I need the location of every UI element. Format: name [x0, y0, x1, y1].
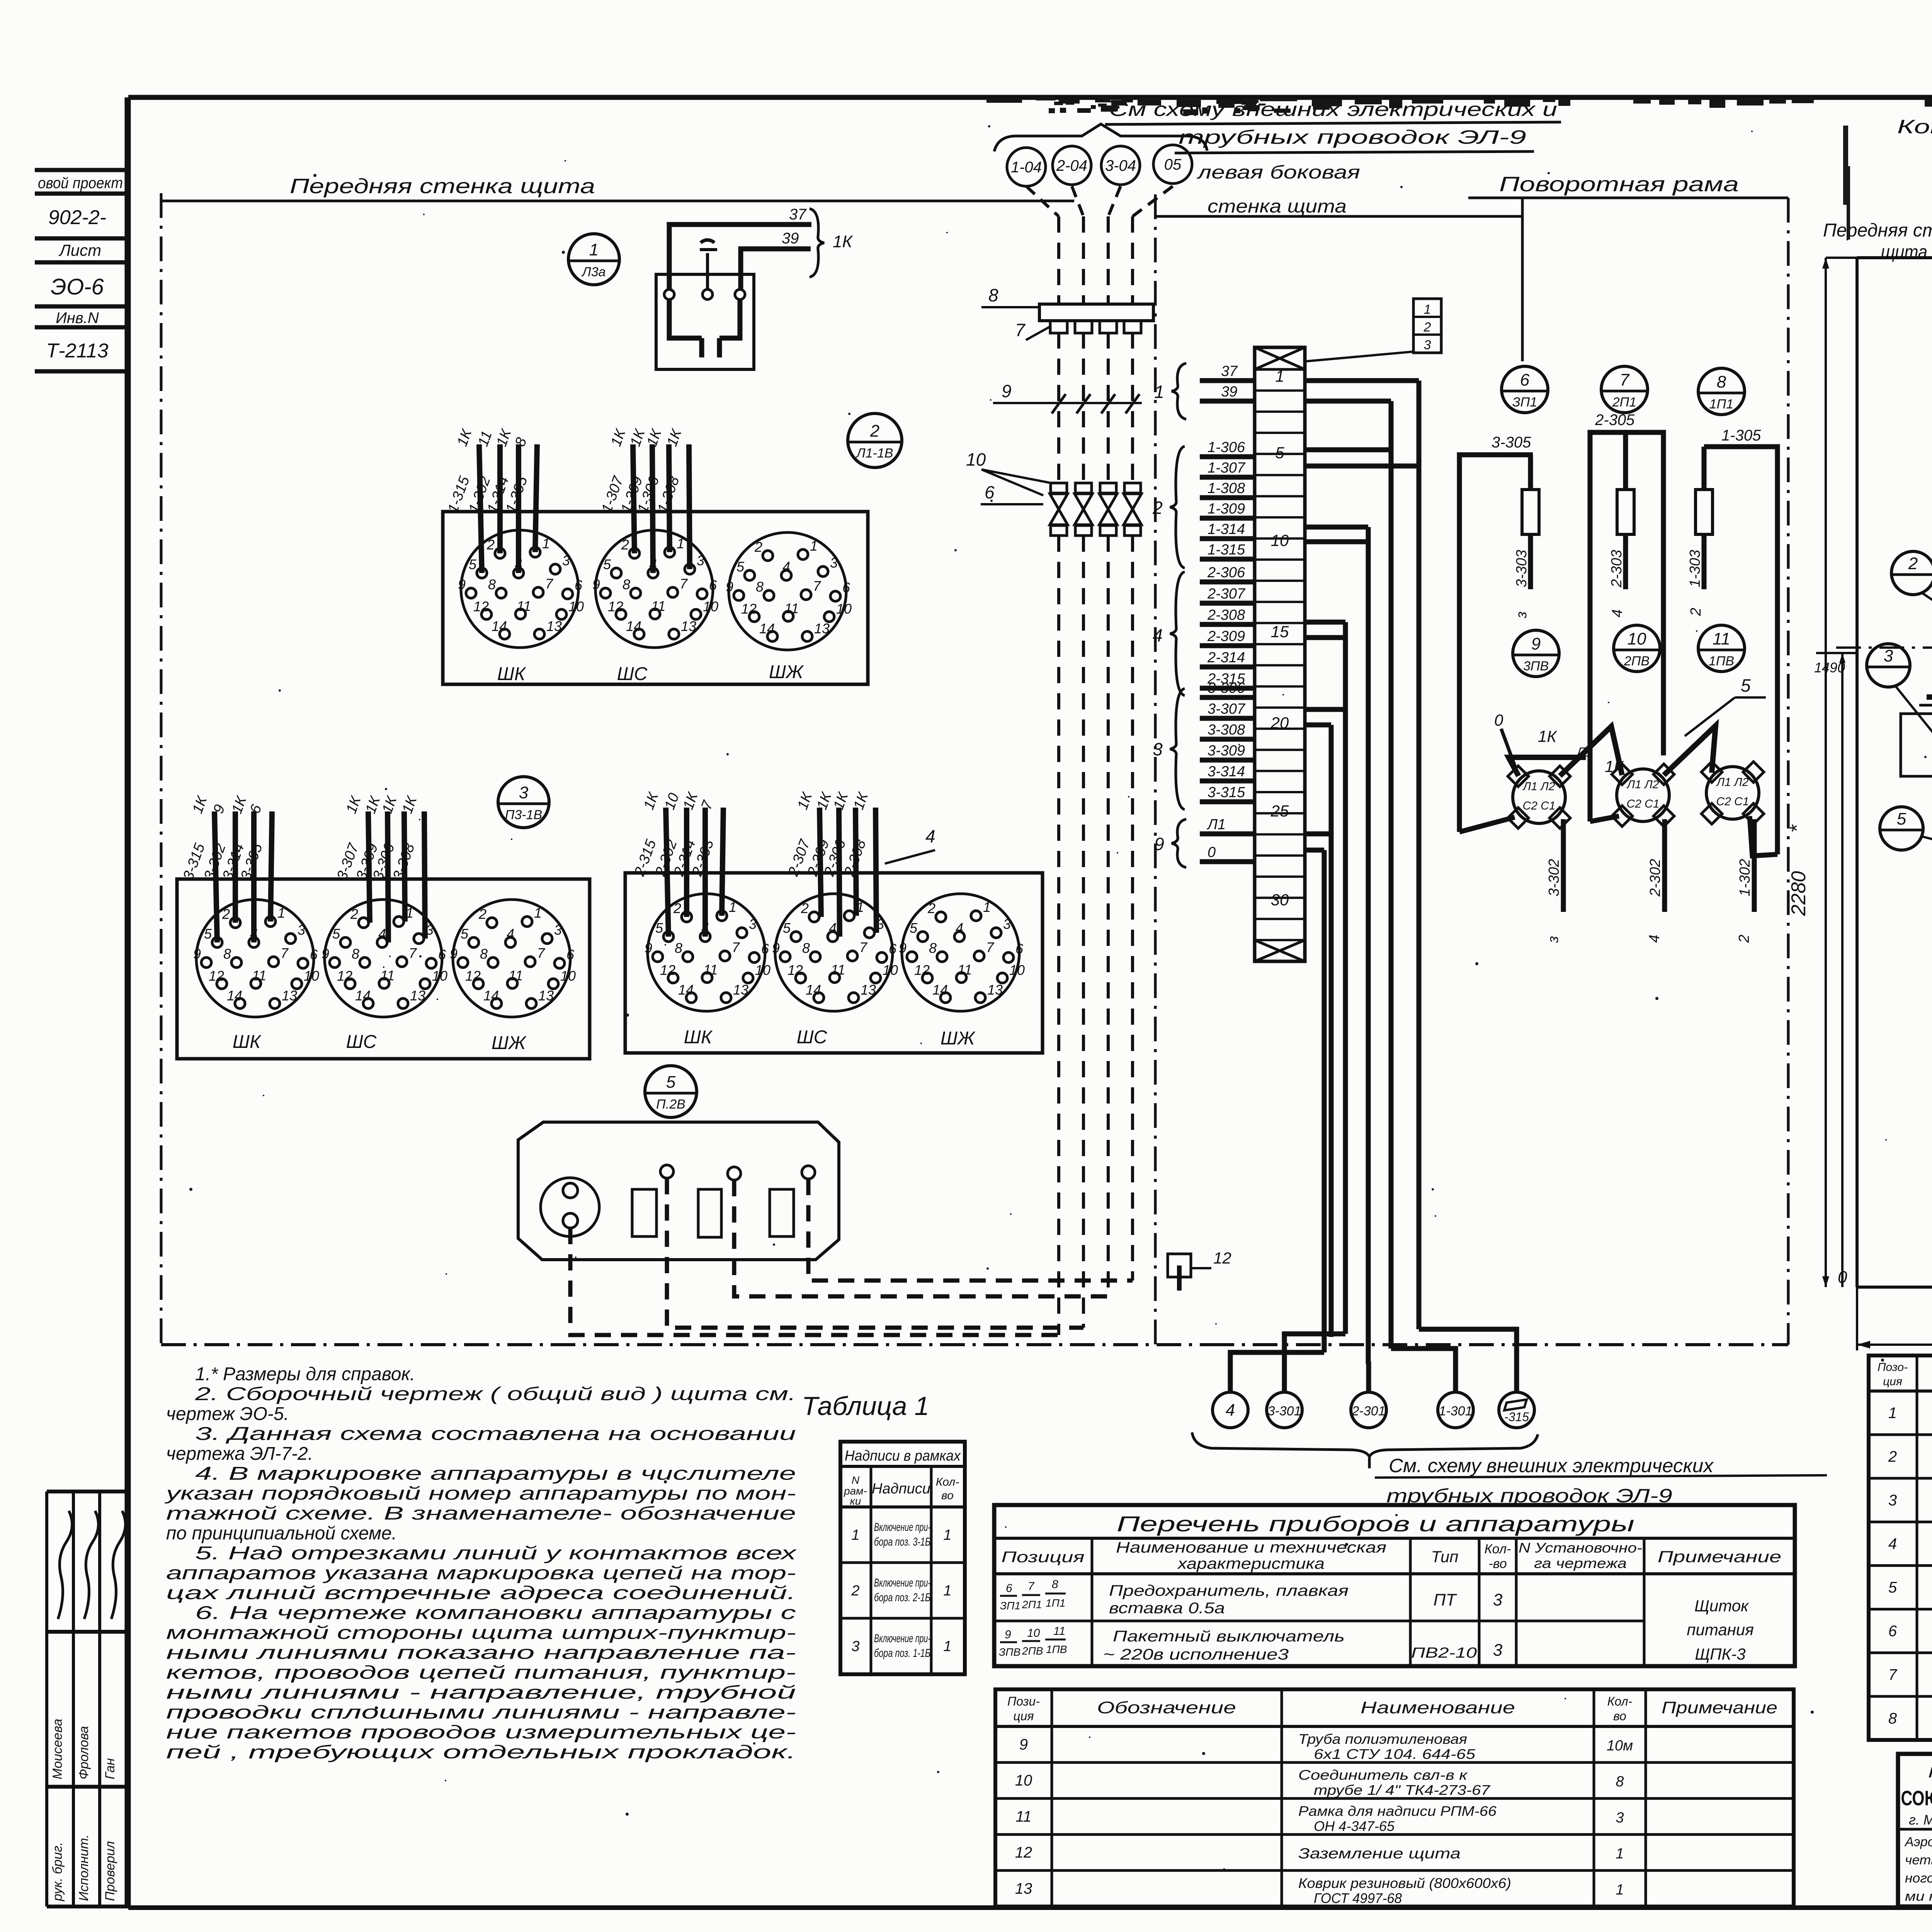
svg-text:9: 9 — [458, 577, 466, 592]
svg-text:1: 1 — [1888, 1405, 1897, 1422]
svg-text:12: 12 — [465, 968, 481, 984]
svg-text:Включение при-: Включение при- — [874, 1521, 930, 1534]
svg-text:ными линиями - направление,: ными линиями - направление, трубной — [166, 1682, 796, 1703]
svg-text:Компоновка аппаратуры с: Компоновка аппаратуры с монтажной — [1897, 116, 1932, 138]
svg-text:13: 13 — [546, 618, 562, 634]
svg-text:Перечень приборов и аппарат: Перечень приборов и аппаратуры — [1117, 1512, 1634, 1536]
svg-text:5: 5 — [1897, 810, 1906, 828]
svg-text:12: 12 — [608, 599, 623, 614]
svg-text:12: 12 — [787, 962, 803, 978]
svg-text:12: 12 — [660, 962, 675, 978]
svg-text:10: 10 — [432, 968, 447, 984]
svg-text:1-309: 1-309 — [1207, 501, 1245, 517]
svg-text:Наименование и техническая: Наименование и техническая — [1116, 1539, 1386, 1556]
svg-text:Тип: Тип — [1431, 1548, 1459, 1566]
svg-text:8: 8 — [802, 940, 810, 956]
svg-text:Кол-: Кол- — [1607, 1694, 1633, 1708]
svg-text:14: 14 — [492, 618, 507, 634]
svg-text:11: 11 — [831, 962, 845, 978]
svg-text:8: 8 — [488, 577, 496, 592]
svg-text:Кол-: Кол- — [1485, 1542, 1511, 1556]
svg-text:Пози-: Пози- — [1007, 1694, 1040, 1708]
svg-text:2: 2 — [927, 900, 935, 916]
svg-text:4: 4 — [378, 926, 386, 942]
svg-text:Заземление щита: Заземление щита — [1298, 1846, 1461, 1862]
svg-text:2-303: 2-303 — [1609, 550, 1625, 588]
svg-text:10: 10 — [1015, 1772, 1032, 1789]
svg-text:9: 9 — [1002, 381, 1012, 401]
svg-text:Л1 Л2: Л1 Л2 — [1522, 780, 1555, 793]
svg-text:10: 10 — [1628, 629, 1646, 648]
svg-text:2: 2 — [486, 537, 495, 553]
svg-text:вставка 0.5а: вставка 0.5а — [1109, 1600, 1225, 1617]
svg-text:Ган: Ган — [103, 1758, 117, 1779]
svg-text:6: 6 — [575, 577, 583, 593]
svg-text:1-04: 1-04 — [1011, 159, 1042, 176]
svg-text:Аэротенки- смесители: Аэротенки- смесители — [1904, 1835, 1932, 1849]
svg-text:2: 2 — [222, 906, 230, 922]
svg-text:ШК: ШК — [497, 664, 526, 684]
svg-text:11: 11 — [703, 962, 718, 978]
svg-text:ного железобетона с размера-: ного железобетона с размера- — [1905, 1871, 1932, 1886]
svg-text:14: 14 — [227, 988, 242, 1003]
svg-text:11: 11 — [517, 598, 531, 614]
svg-text:монтажной стороны щита штр: монтажной стороны щита штрих-пунктир- — [166, 1623, 796, 1643]
svg-text:3: 3 — [1424, 338, 1431, 352]
svg-text:Примечание: Примечание — [1662, 1698, 1777, 1717]
svg-text:10: 10 — [1009, 962, 1025, 978]
svg-text:3: 3 — [554, 922, 562, 938]
svg-text:5: 5 — [655, 920, 663, 936]
svg-text:бора поз. 3-1Б: бора поз. 3-1Б — [874, 1536, 930, 1548]
svg-text:9: 9 — [193, 946, 201, 962]
svg-text:9: 9 — [645, 940, 652, 956]
svg-text:стенка щита: стенка щита — [1207, 196, 1347, 217]
svg-text:трубных проводок ЭЛ-9: трубных проводок ЭЛ-9 — [1179, 126, 1526, 148]
svg-text:Л1 Л2: Л1 Л2 — [1716, 776, 1749, 789]
svg-text:Рамка для надписи РПМ-66: Рамка для надписи РПМ-66 — [1298, 1803, 1497, 1819]
svg-text:1: 1 — [1616, 1846, 1624, 1862]
svg-text:4: 4 — [507, 926, 514, 942]
svg-text:7: 7 — [409, 945, 417, 961]
svg-text:3: 3 — [1616, 1810, 1624, 1826]
svg-text:Инв.N: Инв.N — [56, 310, 99, 327]
svg-text:8: 8 — [480, 946, 488, 962]
svg-text:6: 6 — [310, 947, 318, 963]
svg-text:7: 7 — [1888, 1666, 1898, 1683]
svg-text:10: 10 — [966, 449, 986, 469]
svg-text:5: 5 — [603, 556, 611, 572]
svg-text:по принципиальной схеме.: по принципиальной схеме. — [166, 1523, 397, 1544]
svg-text:5: 5 — [461, 926, 469, 942]
svg-text:ЭО-6: ЭО-6 — [51, 274, 104, 299]
svg-text:8: 8 — [675, 940, 682, 956]
svg-text:9: 9 — [772, 940, 780, 956]
svg-text:га чертежа: га чертежа — [1534, 1555, 1627, 1571]
svg-text:2: 2 — [1908, 554, 1918, 573]
svg-text:3ПВ: 3ПВ — [1523, 659, 1549, 673]
svg-text:2: 2 — [1888, 1448, 1897, 1465]
svg-text:1К: 1К — [1538, 727, 1557, 745]
svg-text:ЗП1: ЗП1 — [1512, 395, 1537, 410]
svg-text:питания: питания — [1687, 1621, 1753, 1639]
svg-text:9: 9 — [726, 579, 733, 595]
svg-text:ция: ция — [1883, 1375, 1902, 1388]
svg-text:П3-1В: П3-1В — [505, 808, 542, 822]
svg-text:6: 6 — [1015, 941, 1024, 957]
svg-text:ШК: ШК — [233, 1032, 262, 1052]
svg-text:1.* Размеры для справок.: 1.* Размеры для справок. — [195, 1364, 415, 1384]
svg-text:ЩПК-3: ЩПК-3 — [1695, 1645, 1745, 1663]
svg-text:2: 2 — [870, 422, 879, 440]
svg-text:5: 5 — [910, 920, 918, 936]
svg-text:3: 3 — [1888, 1492, 1897, 1509]
svg-text:3: 3 — [562, 553, 570, 568]
svg-text:11: 11 — [957, 962, 972, 978]
svg-text:5: 5 — [736, 559, 745, 575]
svg-text:8: 8 — [1888, 1710, 1897, 1727]
svg-text:13: 13 — [1015, 1880, 1032, 1897]
svg-text:7: 7 — [1015, 320, 1026, 340]
svg-text:Щиток: Щиток — [1694, 1597, 1749, 1615]
svg-text:з: з — [1514, 611, 1530, 619]
svg-text:5: 5 — [204, 926, 212, 942]
svg-text:13: 13 — [681, 618, 696, 634]
svg-text:5: 5 — [783, 920, 791, 936]
svg-text:2-306: 2-306 — [1207, 565, 1245, 581]
svg-text:цах линий встречные адреса: цах линий встречные адреса соединений. — [166, 1583, 796, 1604]
svg-text:См. схему внешних электричес: См. схему внешних электрических — [1389, 1455, 1714, 1476]
svg-text:2: 2 — [1688, 608, 1704, 616]
svg-text:3. Данная схема составлена: 3. Данная схема составлена на основании — [195, 1424, 796, 1444]
svg-text:С2 С1: С2 С1 — [1626, 798, 1659, 810]
svg-text:2П1: 2П1 — [1022, 1599, 1042, 1611]
svg-text:5. Над отрезками линий у к: 5. Над отрезками линий у контактов всех — [195, 1543, 797, 1564]
svg-text:1ПВ: 1ПВ — [1709, 654, 1734, 668]
svg-text:7: 7 — [545, 576, 554, 592]
svg-text:Надписи: Надписи — [872, 1481, 930, 1497]
svg-text:4: 4 — [956, 920, 963, 936]
svg-text:7: 7 — [680, 576, 688, 592]
svg-text:11: 11 — [784, 600, 799, 616]
svg-text:12: 12 — [209, 968, 224, 984]
svg-text:20: 20 — [1270, 714, 1289, 732]
svg-text:11: 11 — [1015, 1808, 1032, 1825]
svg-text:1: 1 — [729, 899, 736, 915]
svg-text:8: 8 — [1717, 372, 1726, 391]
svg-text:6: 6 — [889, 941, 897, 957]
svg-text:12: 12 — [1015, 1844, 1032, 1861]
svg-text:11: 11 — [252, 968, 266, 983]
svg-text:12: 12 — [1213, 1249, 1231, 1267]
svg-text:8: 8 — [756, 579, 764, 595]
svg-text:3: 3 — [1493, 1641, 1503, 1660]
svg-text:9: 9 — [1019, 1736, 1028, 1753]
svg-text:Примечание: Примечание — [1658, 1548, 1781, 1566]
svg-text:рук. бриг.: рук. бриг. — [50, 1842, 65, 1901]
svg-text:четырехкоридорные из сбор-: четырехкоридорные из сбор- — [1905, 1853, 1932, 1867]
svg-text:6: 6 — [1888, 1623, 1897, 1640]
svg-text:25: 25 — [1270, 802, 1289, 820]
svg-text:Соединитель свл-в к: Соединитель свл-в к — [1298, 1767, 1468, 1783]
svg-text:10: 10 — [1027, 1627, 1040, 1639]
svg-text:1К: 1К — [1605, 757, 1624, 776]
svg-text:14: 14 — [806, 982, 821, 998]
svg-text:Кол-: Кол- — [936, 1476, 959, 1488]
svg-text:2: 2 — [478, 906, 486, 922]
svg-text:3-301: 3-301 — [1268, 1404, 1301, 1418]
svg-text:13: 13 — [733, 982, 748, 998]
svg-text:2-307: 2-307 — [1207, 586, 1246, 602]
svg-text:1ПВ: 1ПВ — [1046, 1643, 1067, 1655]
svg-text:ШЖ: ШЖ — [769, 662, 804, 682]
svg-text:Включение при-: Включение при- — [874, 1577, 930, 1589]
svg-text:чертежа ЭЛ-7-2.: чертежа ЭЛ-7-2. — [166, 1444, 313, 1464]
svg-text:39: 39 — [1221, 384, 1237, 400]
svg-text:902-2-: 902-2- — [48, 206, 106, 229]
svg-text:6х1 СТУ 104. 644-65: 6х1 СТУ 104. 644-65 — [1314, 1746, 1476, 1762]
svg-text:7: 7 — [859, 939, 868, 955]
svg-text:3: 3 — [519, 783, 529, 802]
svg-text:1: 1 — [589, 240, 599, 259]
svg-text:1П1: 1П1 — [1046, 1597, 1065, 1609]
svg-text:11: 11 — [380, 968, 395, 983]
svg-text:4: 4 — [1646, 935, 1663, 943]
svg-text:1-307: 1-307 — [1207, 460, 1246, 476]
svg-text:6: 6 — [842, 580, 850, 595]
svg-text:8: 8 — [1616, 1774, 1624, 1790]
svg-text:4. В маркировке аппаратуры: 4. В маркировке аппаратуры в числителе — [195, 1464, 796, 1484]
svg-text:10: 10 — [703, 599, 718, 614]
svg-text:10м: 10м — [1607, 1738, 1633, 1754]
svg-text:Позиция: Позиция — [1002, 1549, 1085, 1566]
svg-text:7: 7 — [1620, 371, 1630, 389]
svg-text:бора поз. 2-1Б: бора поз. 2-1Б — [874, 1591, 930, 1604]
svg-text:2: 2 — [801, 900, 809, 916]
svg-text:12: 12 — [914, 962, 930, 978]
svg-text:1: 1 — [1424, 302, 1431, 317]
svg-text:1: 1 — [943, 1527, 951, 1543]
svg-text:з: з — [1545, 936, 1561, 943]
svg-text:2-305: 2-305 — [1595, 412, 1635, 429]
svg-text:ние пакетов проводов изм: ние пакетов проводов измерительных це- — [166, 1722, 796, 1743]
svg-text:37: 37 — [1221, 363, 1238, 379]
svg-text:2-04: 2-04 — [1056, 157, 1087, 174]
svg-text:ОН 4-347-65: ОН 4-347-65 — [1314, 1818, 1395, 1834]
svg-text:Л1: Л1 — [1576, 745, 1593, 760]
svg-text:3-04: 3-04 — [1105, 157, 1136, 174]
svg-text:0: 0 — [1494, 711, 1503, 729]
svg-text:1: 1 — [534, 905, 542, 921]
svg-text:12: 12 — [337, 968, 352, 984]
svg-text:N: N — [852, 1474, 860, 1486]
svg-text:ция: ция — [1013, 1709, 1034, 1723]
svg-text:11: 11 — [651, 598, 665, 614]
svg-text:6: 6 — [985, 482, 995, 502]
svg-text:13: 13 — [410, 988, 425, 1003]
svg-text:10: 10 — [755, 962, 770, 978]
svg-text:N Установочно-: N Установочно- — [1519, 1540, 1642, 1556]
svg-text:С2 С1: С2 С1 — [1522, 799, 1555, 812]
svg-text:2: 2 — [754, 539, 762, 555]
svg-text:8: 8 — [1052, 1578, 1058, 1591]
svg-text:Предохранитель, плавкая: Предохранитель, плавкая — [1109, 1582, 1349, 1599]
svg-text:2ПВ: 2ПВ — [1624, 654, 1650, 668]
svg-text:3-308: 3-308 — [1207, 722, 1245, 738]
svg-text:9: 9 — [450, 946, 457, 962]
svg-text:Госстрой СССР: Госстрой СССР — [1928, 1765, 1932, 1781]
svg-text:г. Москва: г. Москва — [1909, 1812, 1932, 1828]
svg-text:Передняя стенка щита: Передняя стенка щита — [290, 175, 595, 198]
svg-text:кетов, проводов цепей пи: кетов, проводов цепей питания, пунктир- — [166, 1663, 796, 1683]
svg-text:2-308: 2-308 — [1207, 607, 1245, 623]
svg-text:1490: 1490 — [1814, 660, 1845, 675]
svg-text:Л3а: Л3а — [581, 265, 605, 279]
svg-text:5: 5 — [1741, 675, 1751, 696]
svg-text:9: 9 — [899, 940, 906, 956]
svg-text:1-302: 1-302 — [1737, 859, 1753, 896]
svg-text:во: во — [1613, 1709, 1626, 1723]
svg-text:39: 39 — [782, 230, 799, 247]
svg-text:3-302: 3-302 — [1546, 859, 1562, 896]
svg-text:4: 4 — [782, 559, 790, 575]
svg-text:4: 4 — [1153, 625, 1163, 645]
svg-text:левая боковая: левая боковая — [1196, 162, 1360, 183]
svg-text:1: 1 — [1275, 367, 1284, 385]
svg-text:Позо-: Позо- — [1878, 1361, 1908, 1374]
svg-text:11: 11 — [509, 968, 523, 983]
svg-text:14: 14 — [626, 618, 641, 634]
svg-text:14: 14 — [678, 982, 694, 998]
svg-text:3: 3 — [1493, 1590, 1503, 1609]
svg-text:11: 11 — [1713, 629, 1730, 648]
svg-text:7: 7 — [537, 945, 546, 961]
svg-text:2: 2 — [621, 537, 629, 553]
svg-text:6: 6 — [438, 947, 446, 963]
svg-text:5: 5 — [332, 926, 340, 942]
svg-text:-315: -315 — [1504, 1410, 1529, 1424]
svg-text:1-305: 1-305 — [1721, 427, 1761, 444]
svg-text:5: 5 — [1888, 1579, 1897, 1596]
svg-text:10: 10 — [304, 968, 319, 984]
svg-text:Пакетный выключатель: Пакетный выключатель — [1113, 1628, 1345, 1645]
svg-text:14: 14 — [759, 621, 775, 636]
svg-text:13: 13 — [987, 982, 1003, 998]
svg-text:пей , требующих отдельных: пей , требующих отдельных прокладок. — [166, 1742, 796, 1763]
svg-text:9: 9 — [592, 577, 600, 592]
svg-text:3: 3 — [1153, 739, 1163, 759]
svg-text:2: 2 — [1152, 498, 1163, 518]
svg-text:указан порядковый номер аппа: указан порядковый номер аппаратуры по мо… — [164, 1483, 796, 1504]
svg-text:6: 6 — [1520, 371, 1530, 389]
svg-text:Таблица 1: Таблица 1 — [802, 1391, 929, 1421]
svg-text:7: 7 — [986, 939, 995, 955]
svg-text:5: 5 — [469, 556, 477, 572]
svg-text:3-315: 3-315 — [1207, 784, 1245, 801]
svg-text:05: 05 — [1164, 156, 1182, 173]
svg-text:ЗПВ: ЗПВ — [999, 1646, 1020, 1658]
svg-text:3: 3 — [1884, 646, 1893, 665]
svg-text:4: 4 — [1609, 609, 1626, 617]
svg-text:9: 9 — [1531, 634, 1541, 653]
svg-text:2П1: 2П1 — [1612, 395, 1636, 410]
svg-text:бора поз. 1-1Б: бора поз. 1-1Б — [874, 1647, 930, 1660]
svg-text:проводки сплошными линиями: проводки сплошными линиями - направле- — [166, 1702, 796, 1723]
svg-text:ми коридора 9 х 5.2 х 150м: ми коридора 9 х 5.2 х 150м — [1905, 1889, 1932, 1904]
svg-text:6: 6 — [1006, 1582, 1012, 1595]
svg-text:1П1: 1П1 — [1709, 397, 1733, 412]
svg-text:ШЖ: ШЖ — [940, 1028, 976, 1049]
svg-text:12: 12 — [473, 599, 489, 614]
svg-text:15: 15 — [1271, 622, 1289, 641]
svg-text:1: 1 — [943, 1583, 951, 1599]
svg-text:6: 6 — [761, 941, 769, 957]
svg-text:трубе 1/ 4" ТК4-273-67: трубе 1/ 4" ТК4-273-67 — [1314, 1782, 1491, 1798]
svg-text:1: 1 — [277, 905, 285, 921]
svg-text:Исполнит.: Исполнит. — [77, 1835, 91, 1901]
svg-text:Надписи в рамках: Надписи в рамках — [845, 1448, 961, 1464]
svg-text:10: 10 — [568, 599, 584, 614]
svg-text:ШЖ: ШЖ — [492, 1033, 527, 1053]
svg-text:7: 7 — [281, 945, 289, 961]
svg-text:3: 3 — [830, 555, 838, 571]
svg-text:30: 30 — [1271, 891, 1289, 909]
svg-text:во: во — [941, 1489, 954, 1502]
svg-text:1-315: 1-315 — [1207, 542, 1245, 558]
svg-text:1-308: 1-308 — [1207, 480, 1245, 497]
svg-text:3: 3 — [749, 916, 757, 932]
svg-text:10: 10 — [836, 601, 852, 617]
svg-text:13: 13 — [861, 982, 876, 998]
svg-text:3-306: 3-306 — [1207, 680, 1245, 696]
svg-text:1: 1 — [1616, 1882, 1624, 1898]
svg-text:Лист: Лист — [58, 241, 101, 259]
svg-text:3: 3 — [851, 1638, 859, 1655]
svg-text:Фролова: Фролова — [77, 1726, 91, 1779]
svg-text:5: 5 — [1275, 444, 1284, 462]
svg-text:4: 4 — [1888, 1536, 1897, 1553]
svg-text:-во: -во — [1488, 1556, 1507, 1571]
svg-text:Моисеева: Моисеева — [50, 1719, 65, 1779]
svg-text:9: 9 — [1154, 834, 1164, 854]
svg-text:9: 9 — [321, 946, 329, 962]
svg-text:2-302: 2-302 — [1647, 859, 1663, 897]
svg-text:3: 3 — [697, 553, 704, 568]
svg-text:2ПВ: 2ПВ — [1022, 1645, 1043, 1657]
svg-text:6. На чертеже компановки ап: 6. На чертеже компановки аппаратуры с — [195, 1603, 796, 1623]
svg-text:С2 С1: С2 С1 — [1716, 795, 1749, 808]
svg-text:11: 11 — [1053, 1625, 1065, 1638]
svg-text:14: 14 — [483, 988, 499, 1003]
svg-text:3-307: 3-307 — [1207, 701, 1246, 717]
svg-text:характеристика: характеристика — [1177, 1555, 1325, 1572]
svg-text:П.2В: П.2В — [656, 1097, 685, 1112]
svg-text:2280: 2280 — [1787, 871, 1810, 916]
svg-text:овой проект: овой проект — [38, 175, 123, 192]
svg-text:7: 7 — [813, 578, 821, 594]
svg-text:1: 1 — [1154, 382, 1164, 402]
svg-text:Л1-1В: Л1-1В — [855, 446, 893, 461]
svg-text:ки: ки — [850, 1495, 861, 1507]
svg-text:7: 7 — [1028, 1580, 1035, 1593]
svg-text:3-303: 3-303 — [1514, 550, 1530, 587]
svg-text:Наименование: Наименование — [1361, 1698, 1515, 1717]
svg-text:14: 14 — [355, 988, 371, 1003]
svg-text:4: 4 — [1226, 1401, 1235, 1420]
svg-text:1: 1 — [943, 1638, 951, 1655]
svg-text:5: 5 — [666, 1073, 676, 1092]
svg-text:6: 6 — [566, 947, 575, 963]
